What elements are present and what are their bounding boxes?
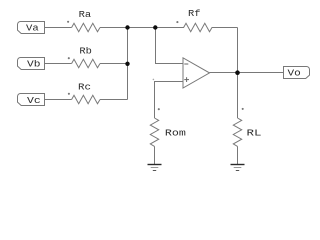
wire noninverting input to Rom [155, 82, 184, 119]
svg-text:Vc: Vc [27, 95, 41, 106]
svg-text:Vo: Vo [288, 67, 302, 78]
wire Rf corner down through output node to RL [237, 28, 239, 119]
port Vc [18, 94, 45, 106]
summing node junction dot [153, 25, 157, 29]
op-amp U1 [153, 58, 210, 88]
svg-text:RL: RL [247, 128, 262, 139]
svg-text:Va: Va [26, 23, 39, 34]
resistor RL [233, 108, 262, 147]
resistor Rf [155, 8, 238, 32]
node A junction dot [125, 25, 129, 29]
wire Rom to ground [154, 146, 156, 164]
svg-text:Rom: Rom [165, 127, 186, 138]
wire RL to ground [237, 146, 239, 164]
wire Rc to bus corner [100, 99, 128, 101]
ground under RL [231, 165, 245, 171]
wire summing node down to inverting input [156, 28, 184, 64]
ground under Rom [148, 165, 162, 171]
wire Rb to node B [100, 63, 128, 65]
vertical bus wire node A down to Rc corner [127, 28, 129, 100]
svg-text:Rc: Rc [78, 82, 91, 93]
resistor Rom [150, 108, 186, 146]
svg-text:Ra: Ra [79, 9, 92, 20]
output node junction dot [235, 70, 240, 75]
resistor Rb [68, 46, 100, 68]
node B junction dot (Rb join) [125, 62, 129, 66]
port Vo [284, 67, 310, 79]
wire Ra to node A [100, 27, 155, 29]
wire Vc to Rc [45, 99, 72, 101]
resistor Rc [68, 82, 100, 104]
svg-text:Rf: Rf [188, 8, 201, 19]
svg-text:Vb: Vb [27, 59, 41, 70]
wire op-amp output to Vo [210, 72, 284, 74]
svg-text:Rb: Rb [79, 46, 92, 57]
wire Vb to Rb [45, 63, 72, 65]
resistor Ra [67, 9, 100, 32]
port Va [18, 22, 45, 34]
port Vb [18, 58, 45, 70]
wire Va to Ra [45, 27, 72, 29]
